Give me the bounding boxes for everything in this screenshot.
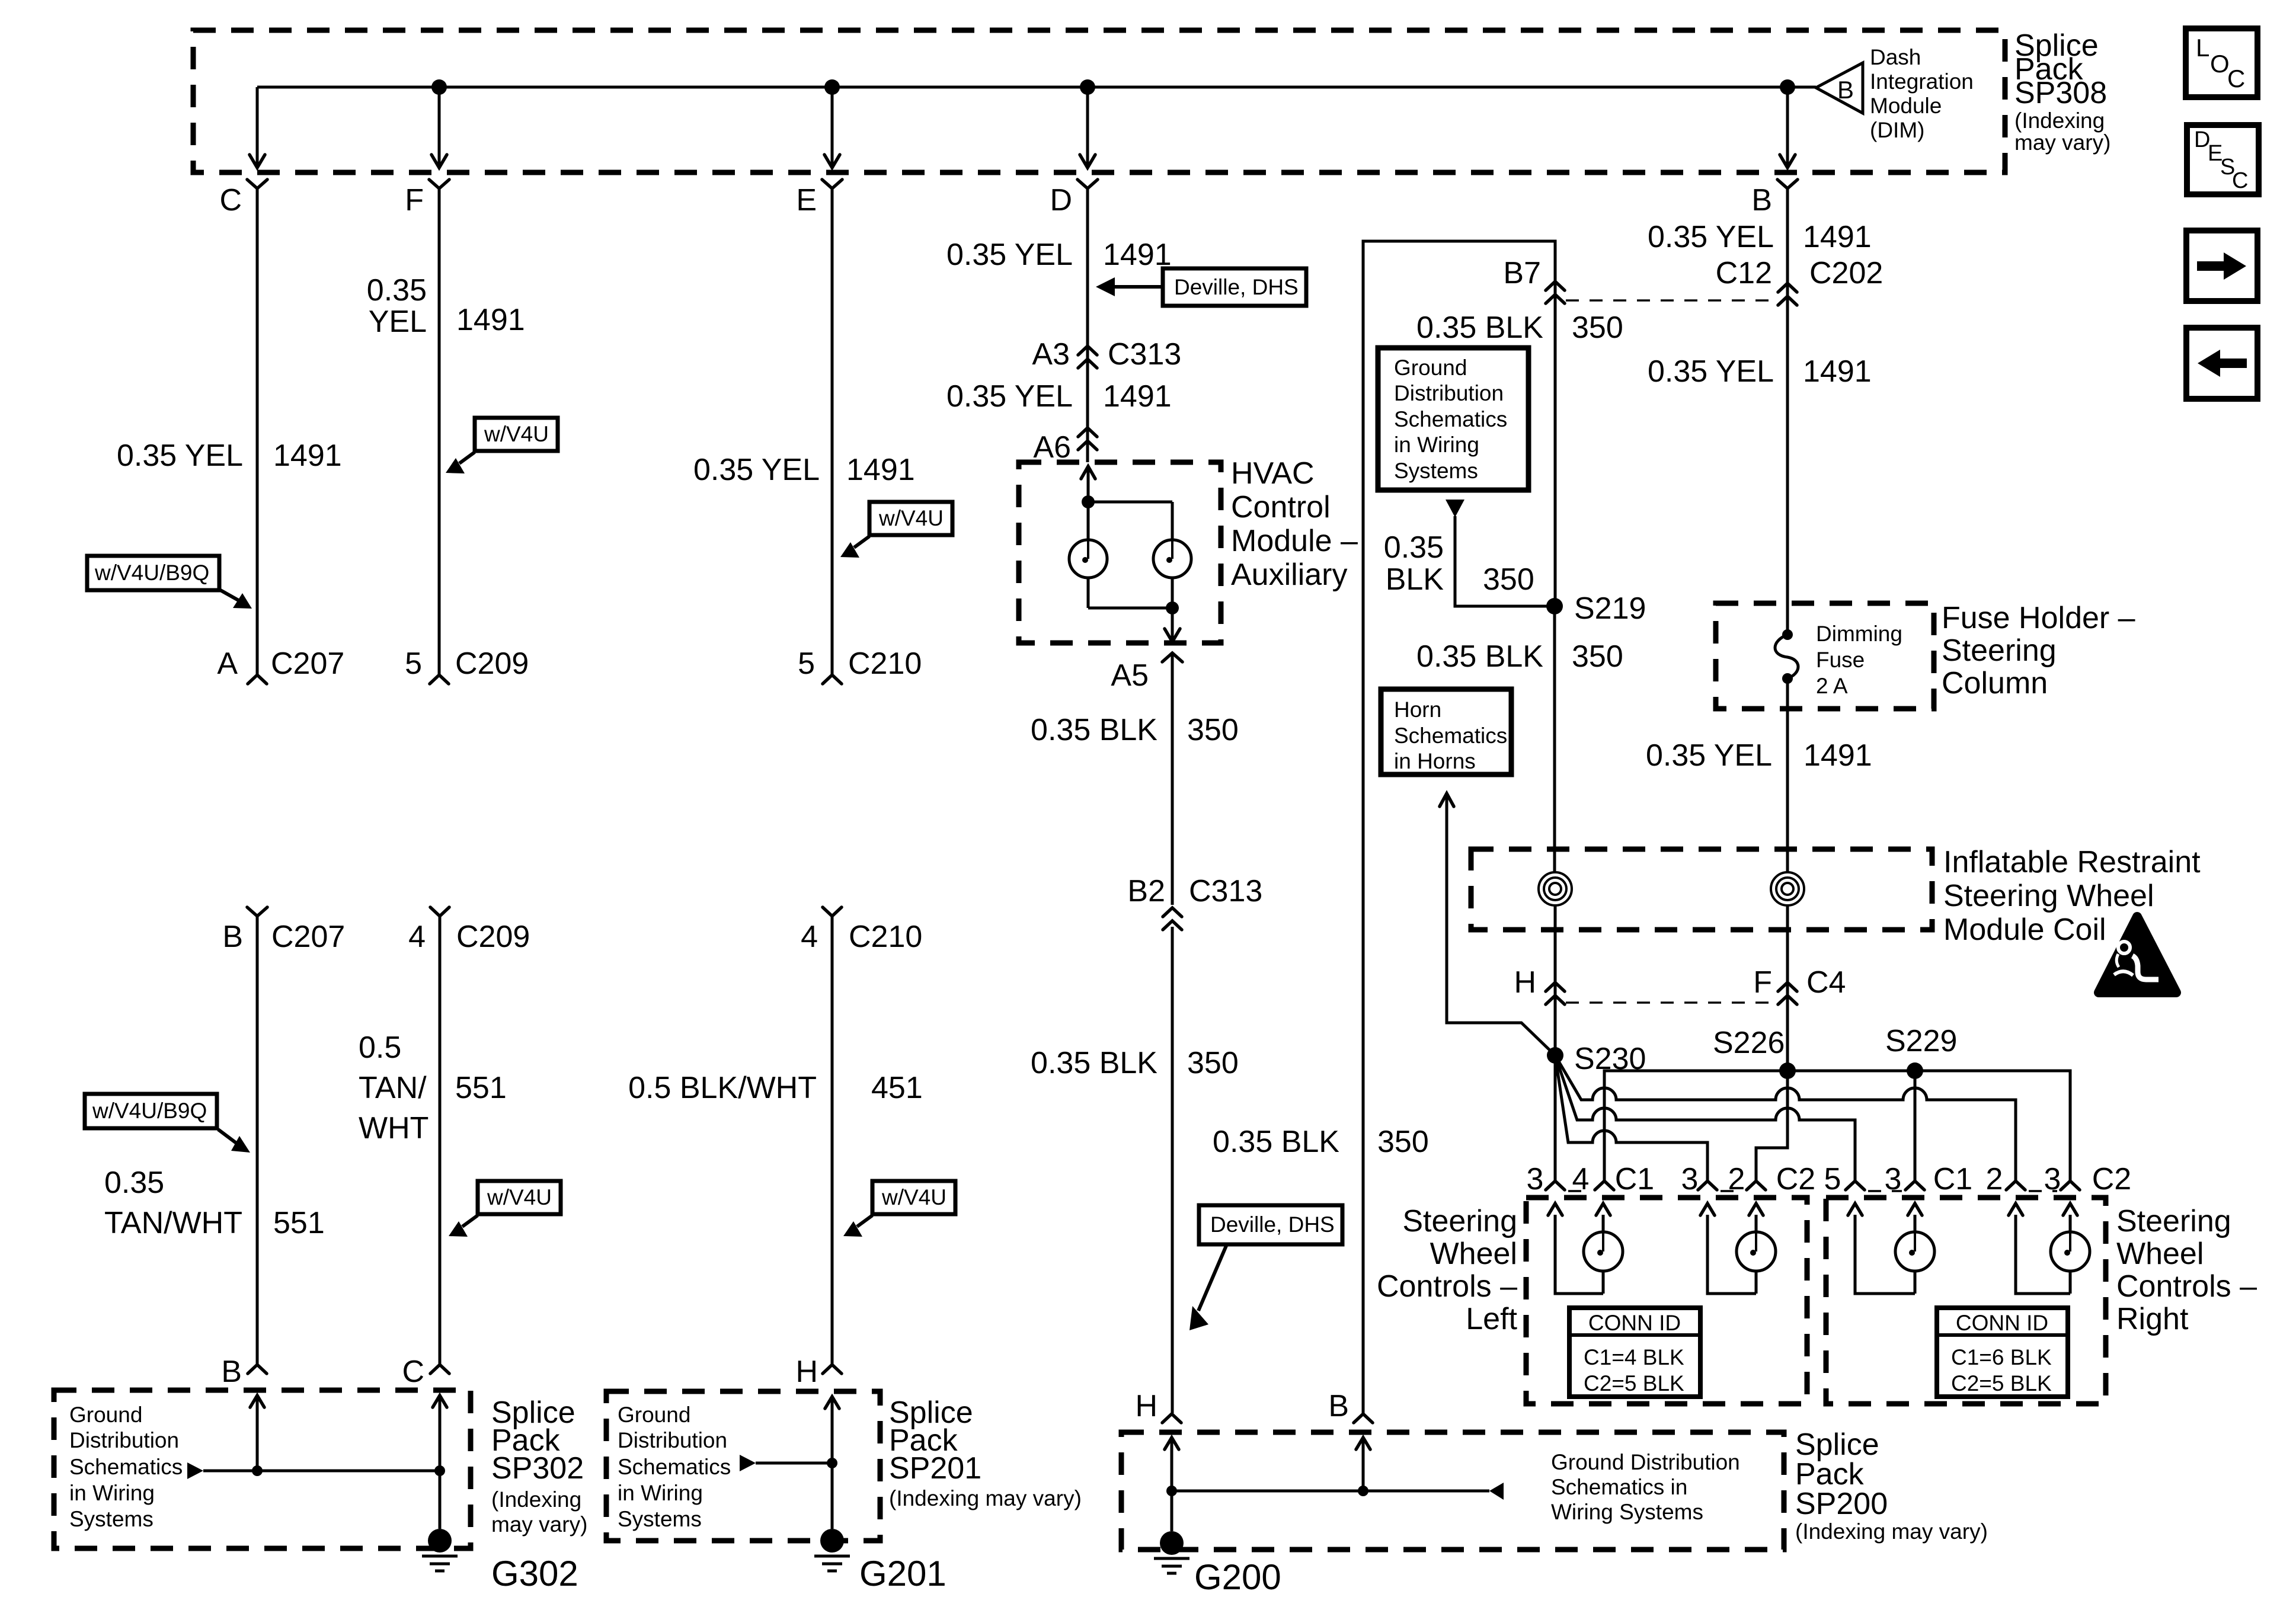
junction dot at D drop (1080, 79, 1095, 95)
connector pin A5 of HVAC module (1111, 653, 1182, 693)
svg-text:Module: Module (1870, 94, 1942, 118)
label Steering Wheel Controls - Right (2116, 1204, 2257, 1336)
svg-text:Schematics: Schematics (1394, 407, 1507, 431)
wire C210-4 to SP201 (0.5 BLK/WHT 451) (831, 916, 834, 1364)
svg-text:TAN/WHT: TAN/WHT (104, 1206, 242, 1240)
airbag warning triangle (2099, 917, 2176, 993)
svg-text:0.35 BLK: 0.35 BLK (1031, 713, 1157, 747)
svg-text:1491: 1491 (456, 303, 525, 337)
SP200 pin H chevron (1135, 1389, 1181, 1423)
svg-text:C: C (2232, 168, 2248, 193)
connector C210 pin 5 (wire E end) (798, 646, 922, 684)
svg-text:H: H (1135, 1389, 1157, 1423)
left box lamp leg pin2 arrow (1749, 1204, 1763, 1294)
svg-text:w/V4U/B9Q: w/V4U/B9Q (92, 1099, 207, 1123)
connector C313 pin B2 (1127, 874, 1262, 930)
SP302 internal arrow C (433, 1395, 447, 1470)
CONN ID table left (1569, 1308, 1700, 1397)
node B (1751, 180, 1798, 217)
SP200 internal arrow B (1356, 1437, 1370, 1491)
svg-text:Ground: Ground (1394, 356, 1467, 380)
svg-text:CONN ID: CONN ID (1588, 1311, 1681, 1335)
svg-text:G302: G302 (491, 1554, 578, 1593)
svg-text:0.35: 0.35 (104, 1166, 164, 1200)
svg-text:C1=4 BLK: C1=4 BLK (1584, 1345, 1684, 1369)
splice pack SP308 dashed box (193, 30, 2005, 172)
splice S219 (1546, 591, 1646, 626)
svg-text:B: B (221, 1355, 242, 1389)
label Splice Pack SP302 (491, 1395, 587, 1537)
label 0.35 YEL 1491 above C202 (1648, 220, 1872, 254)
svg-text:B2: B2 (1127, 874, 1165, 908)
HVAC module entry arrow (1081, 466, 1095, 502)
junction dot at F drop (431, 79, 447, 95)
svg-text:C2=5 BLK: C2=5 BLK (1584, 1371, 1684, 1395)
label Splice Pack SP200 (1795, 1427, 1988, 1544)
fuse holder dashed box (1716, 603, 1934, 709)
label Ground Distribution Schematics in Wiring Systems (SP200) (1551, 1450, 1740, 1524)
splice pack SP302 pin B chevron (221, 1355, 267, 1389)
connector C209 pin 4 (lower section start) (408, 907, 530, 954)
svg-text:Wiring Systems: Wiring Systems (1551, 1500, 1703, 1524)
svg-text:Module –: Module – (1231, 524, 1358, 558)
fan wire 3 S230 to left C2 pin 3 (1555, 1055, 1707, 1180)
coil symbol right (1771, 872, 1804, 905)
svg-text:Systems: Systems (618, 1507, 702, 1531)
svg-text:in Wiring: in Wiring (1394, 433, 1479, 457)
flag Deville, DHS for ground wire (1189, 1205, 1342, 1330)
svg-text:0.5 BLK/WHT: 0.5 BLK/WHT (628, 1071, 817, 1105)
legend box right arrow (2186, 231, 2257, 301)
svg-text:B: B (1751, 183, 1772, 217)
splice S229 (1885, 1024, 1957, 1079)
ground G302 (422, 1529, 578, 1593)
steering wheel controls right dashed box (1826, 1198, 2106, 1404)
wire drop F (431, 87, 447, 168)
svg-text:0.35 YEL: 0.35 YEL (693, 453, 820, 487)
label Splice Pack SP201 (889, 1395, 1082, 1510)
wire S229 down to pin 3 right C1 (1914, 1071, 1917, 1180)
svg-text:B: B (1837, 76, 1854, 104)
junction dot at E drop (824, 79, 840, 95)
label 0.35 YEL 1491 on wire E (693, 453, 915, 487)
svg-text:Wheel: Wheel (1430, 1237, 1517, 1271)
lamp 1 in HVAC module (1069, 540, 1107, 578)
svg-text:4: 4 (408, 920, 426, 954)
svg-text:(Indexing: (Indexing (491, 1487, 581, 1512)
label 0.35 BLK 350 lower (1031, 1046, 1239, 1080)
wire C207-B to SP302 (0.35 TAN/WHT 551) (256, 916, 259, 1364)
legend box DESC (2187, 125, 2259, 194)
svg-text:Controls –: Controls – (1377, 1269, 1517, 1304)
svg-text:350: 350 (1572, 639, 1623, 674)
label 0.35 BLK 350 (1031, 713, 1239, 747)
label 0.35 BLK 350 below B7 (1416, 311, 1623, 345)
ground G201 (814, 1529, 946, 1593)
svg-text:Distribution: Distribution (1394, 381, 1504, 405)
svg-text:Module Coil: Module Coil (1943, 913, 2106, 947)
label Inflatable Restraint Steering Wheel Module Coil (1943, 845, 2201, 947)
dash integration module DIM triangle B (1816, 63, 1863, 113)
pin chevron 3 right C1 (1905, 1181, 1924, 1190)
connector C207 pin B (lower section start) (222, 907, 345, 954)
ground G200 (1154, 1531, 1281, 1597)
svg-text:TAN/: TAN/ (359, 1071, 427, 1105)
svg-text:Controls –: Controls – (2116, 1269, 2257, 1304)
svg-text:Steering: Steering (2116, 1204, 2231, 1238)
svg-text:Left: Left (1466, 1302, 1517, 1336)
svg-text:2 A: 2 A (1816, 674, 1848, 698)
svg-text:0.35 YEL: 0.35 YEL (946, 238, 1073, 272)
option flag w/V4U for wire F (446, 418, 558, 473)
svg-text:1491: 1491 (1803, 354, 1872, 389)
svg-text:S229: S229 (1885, 1024, 1957, 1058)
connector C209 pin 5 (wire F end) (405, 646, 529, 684)
wire from ground distribution reference to S219 (1446, 500, 1547, 606)
svg-text:0.35: 0.35 (367, 273, 427, 308)
svg-text:Inflatable Restraint: Inflatable Restraint (1943, 845, 2201, 879)
svg-text:SP200: SP200 (1795, 1487, 1888, 1521)
svg-text:3: 3 (1681, 1162, 1699, 1196)
splice S230 (1547, 1042, 1646, 1076)
wire drop B (1780, 87, 1795, 168)
svg-text:O: O (2210, 50, 2230, 78)
svg-text:Fuse: Fuse (1816, 648, 1865, 672)
label 0.35 YEL 1491 below C313 (946, 379, 1172, 414)
splice pack SP302 dashed box (54, 1390, 471, 1548)
svg-text:Horn: Horn (1394, 697, 1441, 722)
svg-text:(Indexing: (Indexing (2014, 108, 2105, 133)
splice pack SP200 dashed box (1121, 1432, 1784, 1550)
svg-text:1491: 1491 (1803, 738, 1872, 773)
label Fuse Holder - Steering Column (1942, 601, 2135, 700)
label 0.5 TAN/WHT 551 (359, 1030, 507, 1145)
wire drop E (824, 87, 840, 168)
right box switch leg pin5 arrow (1848, 1204, 1915, 1294)
label 0.35 YEL 1491 on wire D (946, 238, 1172, 272)
HVAC exit arrow down (1165, 608, 1180, 642)
svg-text:Systems: Systems (69, 1507, 154, 1531)
svg-text:SP302: SP302 (491, 1451, 584, 1486)
wire S226 horizontal to pin 4 and to S229 and pin 3 right C2 (1604, 1071, 2070, 1180)
svg-text:Wheel: Wheel (2116, 1237, 2204, 1271)
svg-text:0.35 BLK: 0.35 BLK (1416, 311, 1543, 345)
node C (219, 180, 267, 217)
label Ground Distribution Schematics in Wiring Systems (SP201) (618, 1403, 731, 1531)
svg-text:in Wiring: in Wiring (618, 1481, 703, 1505)
SP302 internal arrow B (250, 1395, 264, 1470)
thin dashed connector links between pins (1568, 1190, 2057, 1192)
svg-text:Schematics: Schematics (618, 1455, 731, 1479)
svg-text:1491: 1491 (1803, 220, 1872, 254)
lamp left C1 (1584, 1232, 1623, 1271)
svg-text:Dash: Dash (1870, 45, 1921, 69)
thin dashed connector line C4 (1566, 1001, 1778, 1004)
wire F (0.35 YEL 1491) (438, 188, 441, 674)
wire B (0.35 YEL 1491) upper segment (1786, 188, 1789, 630)
wire B2 to SP200 (0.35 BLK 350) (1171, 927, 1174, 1413)
lamp right C2 (2051, 1232, 2090, 1271)
svg-text:350: 350 (1187, 1046, 1239, 1080)
svg-text:CONN ID: CONN ID (1956, 1311, 2048, 1335)
svg-text:0.35 BLK: 0.35 BLK (1213, 1125, 1339, 1159)
label 0.35 YEL 1491 on wire F (367, 273, 525, 339)
svg-text:C1: C1 (1615, 1162, 1654, 1196)
wire through left coil (1555, 869, 1555, 1064)
svg-text:w/V4U: w/V4U (484, 422, 549, 446)
wire B7 route (0.35 BLK 350 long loop to SP200 pin B) (1363, 241, 1555, 1413)
pin chevron 5 (1846, 1181, 1865, 1190)
svg-text:in Wiring: in Wiring (69, 1481, 155, 1505)
svg-text:(Indexing may vary): (Indexing may vary) (889, 1486, 1082, 1510)
svg-text:0.35 YEL: 0.35 YEL (1648, 354, 1774, 389)
svg-text:F: F (405, 183, 424, 217)
coil symbol left (1539, 872, 1572, 905)
svg-text:B: B (1328, 1389, 1349, 1423)
svg-text:may vary): may vary) (491, 1512, 587, 1537)
reference box Horn Schematics in Horns (1381, 689, 1511, 774)
lamp left C2 (1737, 1232, 1776, 1271)
svg-text:350: 350 (1572, 311, 1623, 345)
wire C209-4 to SP302 (0.5 TAN/WHT 551) (439, 916, 442, 1364)
splice S226 (1713, 1026, 1796, 1079)
SP200 internal arrow H (1165, 1437, 1179, 1531)
svg-text:Integration: Integration (1870, 69, 1974, 94)
svg-text:C313: C313 (1108, 337, 1181, 372)
svg-text:HVAC: HVAC (1231, 456, 1315, 491)
svg-text:451: 451 (871, 1071, 923, 1105)
label 0.35 YEL 1491 below fuse (1646, 738, 1872, 773)
svg-text:A6: A6 (1033, 430, 1071, 465)
wire S230 down to pin 3 (1554, 1055, 1557, 1180)
label 0.5 BLK/WHT 451 (628, 1071, 923, 1105)
svg-text:(Indexing may vary): (Indexing may vary) (1795, 1519, 1988, 1544)
option flag w/V4U for C209 wire (449, 1181, 561, 1237)
svg-text:0.5: 0.5 (359, 1030, 401, 1065)
svg-text:may vary): may vary) (2014, 130, 2110, 155)
label 0.35 BLK 350 below S219 (1416, 639, 1623, 674)
junction dot at B drop (1780, 79, 1795, 95)
option flag w/V4U for wire E (840, 502, 952, 558)
connector C313 pin A3 (1032, 337, 1181, 372)
svg-text:C2=5 BLK: C2=5 BLK (1951, 1371, 2052, 1395)
pin chevron 2 left C2 (1747, 1181, 1766, 1190)
node E (796, 180, 842, 217)
pin chevron 3 left C2 (1698, 1181, 1717, 1190)
fan wire 1 S230 to right C2 pin 2 (1555, 1055, 2016, 1180)
HVAC control module dashed box (1019, 462, 1221, 643)
svg-text:551: 551 (455, 1071, 507, 1105)
svg-text:Deville, DHS: Deville, DHS (1210, 1212, 1335, 1237)
svg-text:A3: A3 (1032, 337, 1070, 372)
reference box Ground Distribution Schematics in Wiring Systems (1378, 348, 1528, 490)
svg-text:A5: A5 (1111, 658, 1149, 693)
svg-text:C209: C209 (455, 646, 529, 681)
svg-text:Steering: Steering (1942, 633, 2057, 668)
legend box left arrow (2186, 328, 2257, 399)
wire drop C (250, 87, 265, 168)
horn reference wire with up arrow (1440, 793, 1555, 1055)
wire C (0.35 YEL 1491) (256, 188, 259, 674)
svg-text:Dimming: Dimming (1816, 622, 1902, 646)
fan wire 2 S230 to pin 5 (1555, 1055, 1855, 1180)
svg-text:SP201: SP201 (889, 1451, 981, 1486)
connector C207 pin A (wire C end) (217, 646, 344, 684)
svg-text:SP308: SP308 (2014, 76, 2107, 110)
right box lamp leg pin3 C2 arrow (2063, 1204, 2077, 1294)
lamp 2 in HVAC module (1153, 540, 1191, 578)
option flag w/V4U/B9Q for wire C (87, 556, 252, 609)
svg-text:D: D (1050, 183, 1072, 217)
svg-text:w/V4U: w/V4U (487, 1185, 552, 1209)
svg-text:0.35: 0.35 (1384, 530, 1444, 565)
label Steering Wheel Controls - Left (1377, 1204, 1518, 1336)
svg-text:H: H (795, 1355, 818, 1389)
label HVAC Control Module - Auxiliary (1231, 456, 1358, 592)
wire S219 to coil (0.35 BLK 350) (1553, 606, 1556, 869)
svg-text:w/V4U: w/V4U (878, 506, 944, 530)
thin dashed connector line B7 to C202 (1566, 299, 1777, 302)
svg-text:L: L (2196, 34, 2209, 62)
label 0.35 YEL 1491 on wire C (117, 438, 342, 473)
svg-text:3: 3 (1527, 1162, 1544, 1196)
svg-text:Deville, DHS: Deville, DHS (1174, 275, 1299, 299)
connector C210 pin 4 (lower section start) (801, 907, 922, 954)
label 0.35 TAN/WHT 551 (104, 1166, 325, 1240)
svg-text:1491: 1491 (1103, 379, 1172, 414)
svg-text:Schematics: Schematics (69, 1455, 183, 1479)
svg-text:Systems: Systems (1394, 459, 1478, 483)
svg-text:Column: Column (1942, 666, 2048, 700)
wire A5 to C313 (0.35 BLK 350) (1171, 653, 1174, 905)
svg-text:Auxiliary: Auxiliary (1231, 558, 1348, 592)
HVAC junction dot at lamp outputs (1166, 601, 1179, 614)
wire drop D (1080, 87, 1095, 168)
pin chevron 2 right C2 (2006, 1181, 2025, 1190)
svg-text:Distribution: Distribution (69, 1428, 179, 1452)
CONN ID table right (1937, 1308, 2068, 1397)
SP200 pin B chevron (1328, 1389, 1373, 1423)
option flag w/V4U for C210 wire (843, 1181, 955, 1237)
svg-text:Fuse Holder –: Fuse Holder – (1942, 601, 2135, 635)
svg-text:350: 350 (1377, 1125, 1429, 1159)
svg-text:w/V4U: w/V4U (881, 1185, 946, 1209)
svg-text:0.35 BLK: 0.35 BLK (1031, 1046, 1157, 1080)
connector pin A6 of HVAC module (1033, 428, 1097, 465)
svg-text:C207: C207 (271, 646, 344, 681)
label 0.35 BLK 350 on reference wire (1384, 530, 1534, 597)
connector C202 pin C12 (1716, 256, 1884, 305)
svg-text:C2: C2 (1776, 1162, 1815, 1196)
svg-text:WHT: WHT (359, 1111, 428, 1145)
connector C4 pin F (1753, 965, 1846, 1004)
left box lamp leg pin4 arrow (1596, 1204, 1610, 1294)
svg-text:C210: C210 (848, 646, 922, 681)
flag Deville, DHS for wire D (1096, 268, 1306, 306)
svg-text:G200: G200 (1194, 1557, 1281, 1597)
label Splice Pack SP308 (2014, 28, 2110, 155)
svg-text:Right: Right (2116, 1302, 2189, 1336)
connector C4 pin H (1514, 965, 1565, 1004)
svg-text:C4: C4 (1806, 965, 1846, 1000)
svg-text:C207: C207 (271, 920, 345, 954)
svg-text:in Horns: in Horns (1394, 749, 1476, 773)
svg-text:C1=6 BLK: C1=6 BLK (1951, 1345, 2052, 1369)
svg-text:0.35 YEL: 0.35 YEL (1648, 220, 1774, 254)
svg-text:1491: 1491 (273, 438, 342, 473)
connector pin B7 chevron (1503, 256, 1565, 303)
svg-text:Ground Distribution: Ground Distribution (1551, 1450, 1740, 1474)
SP201 internal reference arrow (740, 1455, 837, 1471)
option flag w/V4U/B9Q lower (85, 1094, 250, 1153)
svg-text:BLK: BLK (1386, 562, 1444, 597)
svg-text:Distribution: Distribution (618, 1428, 727, 1452)
svg-text:S219: S219 (1574, 591, 1646, 626)
svg-text:C202: C202 (1809, 256, 1883, 290)
wire B fuse to coil (0.35 YEL 1491) (1786, 678, 1789, 869)
svg-text:0.35 BLK: 0.35 BLK (1416, 639, 1543, 674)
svg-text:C2: C2 (2092, 1162, 2131, 1196)
HVAC junction dot (1082, 495, 1095, 508)
label Dimming Fuse 2 A (1816, 622, 1902, 698)
SP201 internal arrow H (825, 1396, 839, 1529)
label 0.35 BLK 350 on B7 loop wire (1213, 1125, 1429, 1159)
svg-text:1491: 1491 (846, 453, 915, 487)
wire through right coil (1786, 869, 1789, 1079)
svg-text:Ground: Ground (69, 1403, 142, 1427)
label 0.35 YEL 1491 below C202 (1648, 354, 1872, 389)
inflatable restraint coil dashed box (1471, 849, 1932, 930)
svg-text:H: H (1514, 965, 1536, 1000)
svg-text:5: 5 (798, 646, 815, 681)
pin chevron 3 left (1546, 1181, 1565, 1190)
svg-text:E: E (796, 183, 817, 217)
svg-text:C12: C12 (1716, 256, 1772, 290)
svg-text:C: C (2227, 65, 2245, 92)
svg-text:Schematics: Schematics (1394, 724, 1507, 748)
label Ground Distribution Schematics in Wiring Systems (SP302) (69, 1403, 183, 1531)
svg-text:A: A (217, 646, 238, 681)
svg-text:Control: Control (1231, 490, 1331, 524)
wire D (0.35 YEL 1491) (1086, 188, 1089, 462)
right box lamp leg pin3 arrow (1908, 1204, 1922, 1294)
svg-text:350: 350 (1187, 713, 1239, 747)
right box switch leg pin2 arrow (2009, 1204, 2070, 1294)
splice pack SP201 dashed box (606, 1391, 880, 1541)
svg-text:Schematics in: Schematics in (1551, 1475, 1687, 1499)
svg-text:C1: C1 (1933, 1162, 1972, 1196)
wire S226 down jog to pin 2 (1756, 1071, 1787, 1180)
node D (1050, 180, 1098, 217)
svg-text:C: C (219, 183, 242, 217)
svg-text:C313: C313 (1189, 874, 1262, 908)
steering wheel controls left dashed box (1526, 1198, 1807, 1404)
svg-text:0.35 YEL: 0.35 YEL (1646, 738, 1772, 773)
label Dash Integration Module (DIM) (1870, 45, 1974, 142)
node F (405, 180, 449, 217)
pin chevron 3 right C2 (2061, 1181, 2080, 1190)
svg-text:5: 5 (1824, 1162, 1841, 1196)
svg-text:F: F (1753, 965, 1772, 1000)
svg-text:5: 5 (405, 646, 422, 681)
svg-text:(DIM): (DIM) (1870, 118, 1924, 142)
svg-text:B7: B7 (1503, 256, 1541, 290)
legend box LOC (2186, 28, 2257, 97)
splice pack SP302 pin C chevron (402, 1355, 449, 1389)
svg-text:Ground: Ground (618, 1403, 690, 1427)
left box switch leg pin3 C2 arrow (1700, 1204, 1756, 1294)
wire E (0.35 YEL 1491) (831, 188, 834, 674)
